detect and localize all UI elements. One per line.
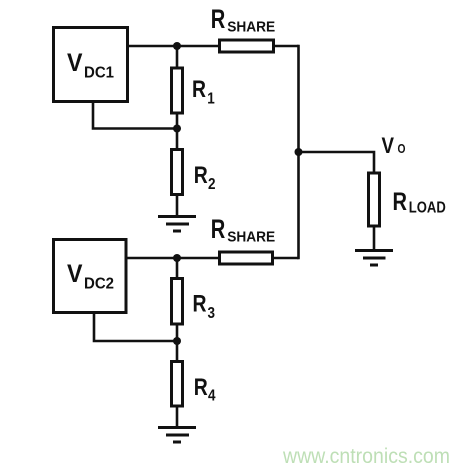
label R4 <box>194 374 216 405</box>
svg-text:2: 2 <box>208 176 216 193</box>
junction output node <box>295 148 303 156</box>
wire VDC2 right to node C and RSHARE2 <box>128 257 220 260</box>
wire VDC1 bottom to node B <box>93 103 177 129</box>
svg-text:R: R <box>211 214 226 244</box>
svg-text:V: V <box>382 133 395 158</box>
svg-text:DC2: DC2 <box>84 276 114 293</box>
wire R1 bottom to node B <box>176 113 179 129</box>
junction node B <box>173 125 181 133</box>
ground below RLOAD <box>355 251 393 266</box>
svg-text:R: R <box>194 162 208 189</box>
svg-text:DC1: DC1 <box>84 65 114 82</box>
junction node D <box>173 337 181 345</box>
label R1 <box>192 76 215 108</box>
wire R2 bottom to ground <box>176 195 179 217</box>
svg-text:LOAD: LOAD <box>409 200 446 217</box>
label VDC1 <box>67 49 114 82</box>
wire R4 bottom to ground <box>176 406 179 428</box>
label VDC2 <box>67 260 114 293</box>
resistor R3 <box>172 279 183 325</box>
svg-text:SHARE: SHARE <box>227 19 275 36</box>
wire right rail vertical <box>297 45 300 260</box>
label RLOAD <box>393 188 446 217</box>
junction node A <box>173 42 181 50</box>
resistor R1 <box>172 68 183 113</box>
resistor RSHARE2 <box>220 252 273 264</box>
svg-text:R: R <box>393 188 408 216</box>
wire node B down to R2 <box>176 129 179 150</box>
svg-text:V: V <box>67 260 83 288</box>
label RSHARE2 <box>211 214 276 246</box>
label R3 <box>193 291 216 323</box>
wire VDC1 right to node A and RSHARE1 <box>129 45 219 48</box>
svg-text:V: V <box>67 49 83 77</box>
svg-text:O: O <box>398 141 406 156</box>
svg-text:1: 1 <box>207 90 215 107</box>
ground below R2 <box>158 217 196 232</box>
voltage source VDC2 <box>54 240 127 313</box>
voltage source VDC1 <box>54 28 128 102</box>
ground below R4 <box>158 428 196 443</box>
svg-text:SHARE: SHARE <box>227 229 275 246</box>
svg-text:www.cntronics.com: www.cntronics.com <box>282 445 450 468</box>
svg-text:R: R <box>192 76 206 103</box>
svg-text:R: R <box>194 374 208 401</box>
wire VDC2 bottom to node D <box>94 314 177 341</box>
wire RSHARE2 right to right rail <box>274 257 299 260</box>
wire RLOAD bottom to ground <box>373 226 376 250</box>
svg-text:R: R <box>211 4 226 34</box>
svg-text:3: 3 <box>208 305 216 322</box>
svg-text:4: 4 <box>208 387 216 404</box>
wire node D down to R4 <box>176 341 179 362</box>
resistor R2 <box>172 150 183 195</box>
label VO <box>382 133 406 158</box>
resistor R4 <box>172 362 183 407</box>
svg-text:R: R <box>193 291 207 318</box>
junction node C <box>173 254 181 262</box>
label RSHARE1 <box>211 4 276 36</box>
label R2 <box>194 162 216 193</box>
resistor RSHARE1 <box>220 40 274 52</box>
wire RSHARE1 right to right rail <box>275 45 299 48</box>
wire output node to RLOAD top <box>299 152 375 173</box>
resistor RLOAD <box>369 173 380 226</box>
wire node A down to R1 <box>176 46 179 68</box>
wire node C down to R3 <box>176 258 179 279</box>
wire R3 bottom to node D <box>176 324 179 341</box>
